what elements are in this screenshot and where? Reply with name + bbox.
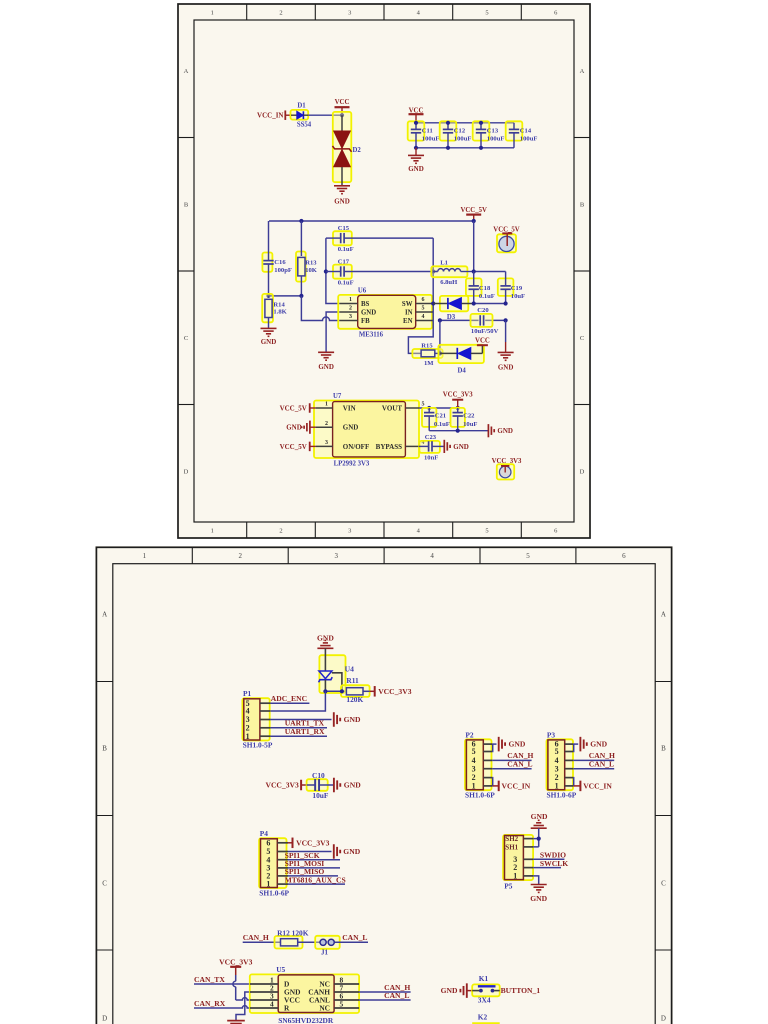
junction FB left xyxy=(266,294,270,298)
svg-text:10uF: 10uF xyxy=(463,421,477,428)
wire P5 pin1 to GND xyxy=(533,876,539,884)
wire VCC_3V3 to U5 pin3 xyxy=(233,975,250,1000)
wire U4 node to P1 pin4 xyxy=(270,691,325,711)
connector P1 body xyxy=(244,699,260,740)
svg-text:R13: R13 xyxy=(305,260,317,267)
svg-text:3: 3 xyxy=(349,314,352,320)
svg-text:4: 4 xyxy=(270,999,274,1008)
wire CAN_L at P3 xyxy=(573,768,614,770)
svg-text:A: A xyxy=(184,68,189,75)
ground flag at U7 pin2 xyxy=(300,421,315,434)
svg-text:0.1uF: 0.1uF xyxy=(338,246,354,253)
U5 pin 7 lead xyxy=(334,983,359,992)
svg-text:1: 1 xyxy=(143,552,147,560)
svg-text:U6: U6 xyxy=(358,288,367,295)
wire UART1_TX xyxy=(270,727,327,729)
wire FB node xyxy=(269,295,302,297)
wire P2 pins 2-1 tie xyxy=(491,778,494,786)
U7 pin 1 lead xyxy=(316,402,333,408)
capacitor C16 xyxy=(263,221,273,296)
svg-text:SN65HVD232DR: SN65HVD232DR xyxy=(278,1016,334,1024)
svg-text:100pF: 100pF xyxy=(274,267,292,274)
port pin VCC_IN at P3 xyxy=(574,781,581,792)
wire U5 pin2 to GND xyxy=(236,992,250,1020)
svg-text:SH1: SH1 xyxy=(505,844,518,852)
wire SPI1_MISO xyxy=(288,875,338,877)
svg-text:D2: D2 xyxy=(353,147,362,154)
U5 pin 5 lead xyxy=(334,999,359,1008)
svg-text:6: 6 xyxy=(422,297,425,303)
svg-text:A: A xyxy=(580,68,585,75)
svg-text:D: D xyxy=(184,469,189,476)
wire CAN_L from U5 xyxy=(359,999,411,1001)
connector P5 body xyxy=(505,836,524,880)
svg-text:C20: C20 xyxy=(477,307,489,314)
svg-text:A: A xyxy=(661,611,666,619)
svg-text:K1: K1 xyxy=(479,974,489,983)
svg-text:CAN_RX: CAN_RX xyxy=(194,999,226,1008)
U6 pin 6 lead xyxy=(416,297,434,303)
svg-text:VCC_IN: VCC_IN xyxy=(257,112,283,120)
wire P3 pin6 to GND xyxy=(574,743,579,745)
wire U4 to R11 xyxy=(325,690,344,692)
U5 pin 4 lead xyxy=(250,999,278,1008)
IC U7 body xyxy=(333,402,406,457)
sheet outer border xyxy=(178,4,590,538)
junction C17 left xyxy=(324,269,328,273)
svg-text:CAN_L: CAN_L xyxy=(342,933,367,942)
svg-text:6: 6 xyxy=(554,9,558,16)
svg-text:NC: NC xyxy=(319,1004,330,1013)
resistor R15 highlight box xyxy=(412,349,442,358)
capacitor C16 highlight box xyxy=(262,253,272,272)
IC U5 body xyxy=(278,975,334,1013)
wire J1 to CAN_L xyxy=(335,941,368,943)
wire FB to pin3 of U6 xyxy=(301,296,339,321)
capacitor C14 xyxy=(509,123,519,148)
svg-text:BYPASS: BYPASS xyxy=(376,443,402,451)
svg-text:1: 1 xyxy=(513,872,517,881)
svg-text:CAN_L: CAN_L xyxy=(507,760,532,769)
svg-text:6: 6 xyxy=(266,838,270,847)
power symbol VCC at C11 xyxy=(409,107,424,122)
svg-text:120K: 120K xyxy=(346,695,363,704)
svg-text:C: C xyxy=(580,335,584,342)
ground under P5 xyxy=(530,885,547,903)
svg-text:C23: C23 xyxy=(425,434,437,441)
border column numbers xyxy=(143,552,627,560)
schematic sheet page 2 xyxy=(95,546,673,1024)
svg-text:100uF: 100uF xyxy=(422,135,440,142)
port pin VCC_3V3 at C10 xyxy=(301,780,307,791)
svg-text:GND: GND xyxy=(344,715,361,724)
svg-text:5: 5 xyxy=(555,747,559,756)
svg-text:C16: C16 xyxy=(274,259,286,266)
shunt reference U4 highlight box xyxy=(319,655,345,693)
svg-text:5: 5 xyxy=(485,9,488,16)
inductor L1 xyxy=(433,269,474,272)
svg-text:1: 1 xyxy=(211,9,214,16)
wire CAN_TX xyxy=(194,983,250,985)
P2 pin 1 lead xyxy=(472,782,493,791)
border row ticks xyxy=(96,682,671,951)
wire CAN_H at P2 xyxy=(492,759,531,761)
svg-text:B: B xyxy=(580,202,585,209)
border row letters xyxy=(102,611,666,1023)
capacitor C20 xyxy=(479,315,481,325)
button K1 xyxy=(472,986,500,992)
wire P3 pins 2-1 tie xyxy=(572,778,575,786)
svg-text:GND: GND xyxy=(497,427,513,435)
ground flag at P1 pin3 xyxy=(334,712,340,727)
svg-text:P5: P5 xyxy=(504,881,513,890)
svg-text:U7: U7 xyxy=(333,393,342,400)
svg-text:VCC_3V3: VCC_3V3 xyxy=(265,781,299,790)
P3 pin 2 lead xyxy=(555,773,574,782)
svg-text:3: 3 xyxy=(348,9,351,16)
junction C21 top xyxy=(427,406,431,410)
capacitor C23 highlight box xyxy=(419,441,440,453)
svg-text:4: 4 xyxy=(417,9,421,16)
svg-text:5: 5 xyxy=(526,552,530,560)
svg-text:IN: IN xyxy=(405,310,413,317)
port pin VCC_IN at P2 xyxy=(493,781,499,792)
P4 pin 6 lead xyxy=(266,838,288,847)
wire VCC_5V output rail xyxy=(269,220,474,222)
ground flag at K1 xyxy=(460,983,472,998)
ground flag at P2 pin6 xyxy=(499,737,505,752)
svg-text:GND: GND xyxy=(343,424,359,432)
svg-text:100uF: 100uF xyxy=(487,135,505,142)
U6 pin 4 lead xyxy=(416,314,434,320)
svg-text:VOUT: VOUT xyxy=(382,404,402,412)
power symbol VCC_3V3 at U5 xyxy=(219,958,253,975)
power symbol VCC at D4 xyxy=(475,338,490,346)
svg-text:GND: GND xyxy=(498,364,514,372)
border column numbers xyxy=(211,9,558,534)
svg-text:A: A xyxy=(102,611,107,619)
svg-text:R: R xyxy=(284,1004,290,1013)
wire SWDIO xyxy=(533,858,564,860)
svg-text:SWCLK: SWCLK xyxy=(540,859,568,868)
junction C20 left xyxy=(438,318,442,322)
op-amp U6 highlight box xyxy=(338,295,432,329)
port pin VCC_5V pin1 xyxy=(310,403,316,413)
port pin VCC_3V3 at P4 pin6 xyxy=(288,838,293,849)
junction bottom rail xyxy=(414,146,418,150)
inductor L1 highlight box xyxy=(431,266,467,277)
svg-text:U5: U5 xyxy=(276,965,285,974)
resistor R12 xyxy=(281,939,320,946)
svg-text:GND: GND xyxy=(344,781,361,790)
svg-text:P3: P3 xyxy=(547,730,556,739)
svg-text:D1: D1 xyxy=(297,102,306,109)
svg-text:R12 120K: R12 120K xyxy=(277,928,309,937)
svg-text:BUTTON_1: BUTTON_1 xyxy=(501,986,541,995)
svg-text:1.8K: 1.8K xyxy=(273,309,287,316)
svg-text:VCC_3V3: VCC_3V3 xyxy=(378,687,412,696)
border row letters xyxy=(184,68,585,476)
U6 pin 2 lead xyxy=(340,306,358,312)
svg-text:GND: GND xyxy=(261,338,277,346)
connector P2 body xyxy=(466,740,483,790)
svg-text:C: C xyxy=(661,880,666,888)
capacitor C17 xyxy=(326,266,438,276)
capacitor C20 highlight box xyxy=(471,314,493,327)
wire CAN_H at P3 xyxy=(573,759,614,761)
svg-text:GND: GND xyxy=(530,894,547,903)
shunt reference U4 xyxy=(319,648,342,691)
svg-text:CAN_H: CAN_H xyxy=(243,933,269,942)
capacitor C10 xyxy=(307,779,334,791)
svg-text:SW: SW xyxy=(402,301,413,308)
capacitor C18 xyxy=(469,272,479,304)
ground flag at P3 pin6 xyxy=(580,737,586,752)
schematic sheet page 1 xyxy=(177,3,591,539)
ground flag at C10 xyxy=(334,778,340,793)
P1 pin 1 lead xyxy=(246,732,271,741)
svg-text:C13: C13 xyxy=(487,127,499,134)
wire SWCLK xyxy=(533,867,561,869)
P2 pin 2 lead xyxy=(472,773,493,782)
capacitor C15 xyxy=(326,233,433,243)
svg-text:2: 2 xyxy=(279,9,282,16)
ground flag at C23 xyxy=(444,440,450,453)
svg-text:C19: C19 xyxy=(511,285,523,292)
svg-text:10uF: 10uF xyxy=(312,791,329,800)
wire SPI1_MOSI xyxy=(288,867,340,869)
svg-text:4: 4 xyxy=(422,314,425,320)
P5 pin 2 lead xyxy=(513,863,533,872)
capacitor C12 highlight box xyxy=(440,121,457,140)
svg-text:6: 6 xyxy=(554,527,558,534)
connector P1 highlight box xyxy=(242,698,269,740)
connector P4 highlight box xyxy=(259,838,286,888)
border column ticks xyxy=(247,4,522,538)
svg-text:2: 2 xyxy=(239,552,243,560)
svg-text:5: 5 xyxy=(485,527,488,534)
svg-text:6.8uH: 6.8uH xyxy=(440,279,458,286)
junction bottom rail xyxy=(479,146,483,150)
connector P2 highlight box xyxy=(465,739,492,790)
wire ADC_ENC xyxy=(270,702,309,704)
capacitor C12 xyxy=(443,123,453,148)
svg-text:K2: K2 xyxy=(478,1012,488,1021)
svg-text:SH1.0-6P: SH1.0-6P xyxy=(465,790,495,799)
svg-text:VCC_IN: VCC_IN xyxy=(583,782,612,791)
P1 pin 5 lead xyxy=(246,699,271,708)
svg-text:0.1uF: 0.1uF xyxy=(434,421,450,428)
svg-text:100uF: 100uF xyxy=(454,135,472,142)
svg-text:MT6816_AUX_CS: MT6816_AUX_CS xyxy=(285,875,346,884)
svg-text:C18: C18 xyxy=(479,285,491,292)
svg-text:1: 1 xyxy=(211,527,214,534)
svg-text:4: 4 xyxy=(417,527,421,534)
ground above U4 xyxy=(317,633,334,648)
svg-text:R15: R15 xyxy=(421,342,433,349)
U6 pin 3 lead xyxy=(340,314,358,320)
svg-text:C11: C11 xyxy=(422,127,433,134)
connector P3 highlight box xyxy=(547,739,574,790)
svg-text:CAN_L: CAN_L xyxy=(589,760,614,769)
jumper J1 xyxy=(320,939,334,945)
svg-text:GND: GND xyxy=(590,740,607,749)
P5 pin SH2 lead xyxy=(505,835,533,843)
ground flag right of C22 xyxy=(488,424,494,437)
svg-text:VCC_5V: VCC_5V xyxy=(280,404,307,412)
junction FB right xyxy=(299,294,303,298)
svg-text:3: 3 xyxy=(472,764,476,773)
wire D1 to VCC node xyxy=(308,114,342,116)
wire CAN_L at P2 xyxy=(492,768,531,770)
junction VCC/D1/D2 xyxy=(340,113,344,117)
wire P4 pin5 to GND xyxy=(288,851,332,853)
capacitor C21 highlight box xyxy=(422,408,436,427)
U5 pin 8 lead xyxy=(334,975,359,984)
wire top rail C11-C14 xyxy=(416,122,514,124)
junction C22 top xyxy=(456,406,460,410)
capacitor C17 highlight box xyxy=(333,265,352,279)
wire P1 pin3 to GND xyxy=(270,719,331,721)
sheet inner border xyxy=(194,20,574,522)
TVS diode D2 highlight box xyxy=(333,112,352,182)
port pin VCC_3V3 at R11 xyxy=(370,686,375,697)
sheet inner border xyxy=(113,564,655,1024)
wire P5 shield to GND xyxy=(533,828,539,847)
capacitor C11 highlight box xyxy=(408,121,425,140)
capacitor C13 xyxy=(476,123,486,148)
wire VCC_5V rail down to L1 xyxy=(473,221,475,272)
svg-text:FB: FB xyxy=(361,318,370,325)
sheet outer border xyxy=(96,547,671,1024)
ground under U6 xyxy=(318,352,334,371)
svg-text:GND: GND xyxy=(453,443,469,451)
svg-text:5: 5 xyxy=(422,306,425,312)
P4 pin 2 lead xyxy=(266,872,288,881)
connector P3 body xyxy=(548,740,565,790)
svg-text:VCC: VCC xyxy=(335,99,350,106)
U5 pin 6 lead xyxy=(334,991,359,1000)
svg-text:D4: D4 xyxy=(457,367,466,374)
svg-text:VCC_3V3: VCC_3V3 xyxy=(219,958,253,967)
wire P3 pins 6-5 tie xyxy=(572,744,575,751)
P3 pin 6 lead xyxy=(555,740,574,749)
P3 pin 1 lead xyxy=(555,782,574,791)
P4 pin 3 lead xyxy=(266,864,288,873)
junction C18 top xyxy=(472,269,476,273)
resistor R11 xyxy=(346,688,369,695)
capacitor C19 xyxy=(500,272,510,304)
svg-text:1: 1 xyxy=(266,880,270,889)
capacitor C18 highlight box xyxy=(466,278,482,296)
ground under C11 bank xyxy=(408,148,424,173)
svg-text:UART1_RX: UART1_RX xyxy=(285,727,325,736)
svg-text:GND: GND xyxy=(509,740,526,749)
svg-text:C22: C22 xyxy=(463,412,475,419)
svg-text:10uF/50V: 10uF/50V xyxy=(471,328,499,335)
svg-text:CAN_TX: CAN_TX xyxy=(194,975,225,984)
transceiver U5 highlight box xyxy=(250,974,359,1013)
junction bottom rail xyxy=(446,146,450,150)
wire BS net to pin1 of U6 xyxy=(326,238,340,303)
svg-text:GND: GND xyxy=(286,424,302,432)
junction U4 ref xyxy=(340,689,344,693)
wire bottom rail C11-C14 xyxy=(416,147,514,149)
svg-text:R11: R11 xyxy=(346,676,359,685)
svg-text:1: 1 xyxy=(349,297,352,303)
svg-text:U4: U4 xyxy=(345,665,354,674)
svg-text:0.1uF: 0.1uF xyxy=(479,293,495,300)
svg-text:6: 6 xyxy=(622,552,626,560)
power symbol VCC xyxy=(335,99,350,115)
P2 pin 5 lead xyxy=(472,747,493,756)
svg-text:GND: GND xyxy=(334,198,350,206)
wire D3 to GND branch xyxy=(474,303,506,305)
junction C20 right xyxy=(504,318,508,322)
svg-text:ADC_ENC: ADC_ENC xyxy=(271,694,307,703)
svg-text:3: 3 xyxy=(348,527,351,534)
resistor R13 xyxy=(298,221,305,296)
svg-text:1: 1 xyxy=(555,782,559,791)
svg-text:GND: GND xyxy=(343,847,360,856)
svg-text:P1: P1 xyxy=(243,689,252,698)
resistor R15 xyxy=(421,350,440,357)
U6 pin 1 lead xyxy=(340,297,358,303)
svg-text:2: 2 xyxy=(279,527,282,534)
svg-text:B: B xyxy=(102,745,107,753)
P3 pin 5 lead xyxy=(555,747,574,756)
diode D4 xyxy=(440,345,483,359)
svg-text:VCC_5V: VCC_5V xyxy=(280,443,307,451)
svg-text:C10: C10 xyxy=(312,771,325,780)
svg-text:5: 5 xyxy=(422,402,425,408)
P1 pin 4 lead xyxy=(246,707,271,716)
ground right of C20 xyxy=(498,342,514,372)
svg-text:ON/OFF: ON/OFF xyxy=(343,443,369,451)
wire P2 pins 6-5 tie xyxy=(491,744,494,751)
power flag VCC_3V3 circle xyxy=(492,458,522,480)
diode D1 xyxy=(291,111,308,119)
P2 pin 4 lead xyxy=(472,756,493,765)
U5 pin 3 lead xyxy=(250,991,278,1000)
svg-text:P4: P4 xyxy=(260,829,269,838)
svg-text:1: 1 xyxy=(325,402,328,408)
P1 pin 2 lead xyxy=(246,723,271,732)
capacitor C14 highlight box xyxy=(506,121,523,140)
capacitor C23 xyxy=(419,441,444,451)
svg-text:C21: C21 xyxy=(435,412,446,419)
junction VCC_5V rail xyxy=(472,219,476,223)
svg-text:SH1.0-5P: SH1.0-5P xyxy=(243,741,273,750)
diode D1 highlight box xyxy=(291,110,309,120)
P5 pin 1 lead xyxy=(513,872,533,881)
svg-text:SH1.0-6P: SH1.0-6P xyxy=(547,790,577,799)
wire P2 pin6 to GND xyxy=(493,743,497,745)
junction SW pin xyxy=(431,301,435,305)
power symbol VCC_3V3 at U7 output xyxy=(443,391,473,408)
capacitor C21 xyxy=(424,408,434,431)
svg-text:SS54: SS54 xyxy=(297,122,312,129)
capacitor C22 highlight box xyxy=(451,408,465,427)
svg-text:1: 1 xyxy=(472,782,476,791)
wire UART1_RX xyxy=(270,735,327,737)
svg-text:VCC_3V3: VCC_3V3 xyxy=(443,391,473,398)
svg-text:GND: GND xyxy=(408,165,424,173)
diode D4 highlight box xyxy=(438,345,484,363)
svg-text:C15: C15 xyxy=(338,225,350,232)
svg-text:BS: BS xyxy=(361,301,370,308)
svg-text:VCC_5V: VCC_5V xyxy=(460,207,487,214)
